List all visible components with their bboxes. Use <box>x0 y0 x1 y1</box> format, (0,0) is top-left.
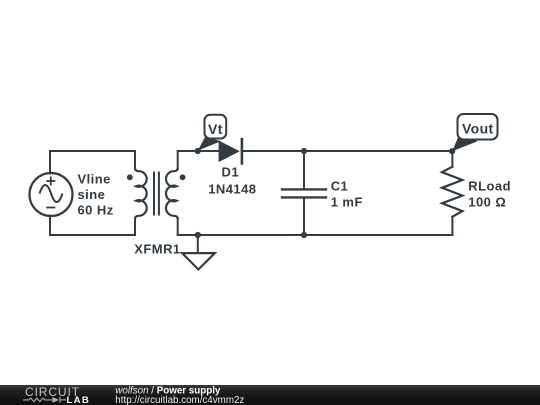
svg-text:1N4148: 1N4148 <box>208 182 256 197</box>
svg-text:http://circuitlab.com/c4vmm2z: http://circuitlab.com/c4vmm2z <box>115 395 244 405</box>
svg-text:C1: C1 <box>331 178 349 193</box>
svg-text:sine: sine <box>78 187 106 202</box>
svg-text:D1: D1 <box>222 165 240 180</box>
svg-text:1 mF: 1 mF <box>331 195 363 210</box>
svg-text:60 Hz: 60 Hz <box>78 203 114 218</box>
svg-text:100 Ω: 100 Ω <box>468 195 506 210</box>
svg-text:Vout: Vout <box>462 121 494 137</box>
svg-text:RLoad: RLoad <box>468 179 511 194</box>
svg-text:Vt: Vt <box>208 121 223 137</box>
svg-text:XFMR1: XFMR1 <box>134 241 180 256</box>
svg-text:Vline: Vline <box>78 171 111 186</box>
svg-text:LAB: LAB <box>67 394 91 405</box>
